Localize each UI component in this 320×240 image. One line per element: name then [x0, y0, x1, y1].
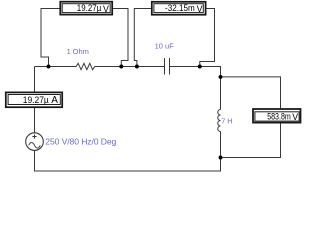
svg-text:250 V/80 Hz/0 Deg: 250 V/80 Hz/0 Deg [45, 137, 116, 147]
AC source V1 circle [26, 133, 44, 151]
wire: main top horizontal left segment [35, 66, 77, 68]
AC source plus sign [32, 134, 36, 138]
svg-text:7 H: 7 H [221, 117, 232, 126]
wire: capacitor right to top-right corner, down to junction [170, 67, 221, 77]
AC source sine wave [29, 143, 41, 149]
svg-text:V: V [103, 4, 109, 15]
voltmeter M1 reading text [77, 3, 110, 15]
label L1 value: 7 H [221, 117, 232, 126]
voltmeter M1 box (top-left) [60, 2, 112, 15]
svg-text:V: V [292, 112, 298, 123]
svg-text:V: V [197, 4, 203, 15]
svg-text:19.27µ: 19.27µ [77, 3, 102, 13]
node: junction dot at M1 left probe [47, 65, 51, 69]
ammeter M3 box [6, 92, 62, 107]
wire: junction down to inductor top [220, 77, 222, 110]
svg-text:A: A [51, 95, 58, 106]
label C1 value: 10 uF [155, 42, 175, 51]
inductor L1 (7 H) coil [218, 110, 221, 132]
wire: M2 left probe [134, 9, 151, 67]
node: junction dot bottom-right branch [219, 156, 223, 160]
label R1 value: 1 Ohm [67, 47, 89, 56]
wire: M2 right probe [200, 9, 215, 67]
svg-text:1 Ohm: 1 Ohm [67, 47, 89, 56]
capacitor C1 (10 uF) plates [165, 58, 170, 75]
voltmeter M4 box (right) [253, 109, 301, 123]
voltmeter M2 box (top-right) [152, 2, 206, 15]
wire: M1 left probe [41, 9, 60, 67]
wire: ammeter top lead up to main wire corner [34, 67, 36, 93]
wire: bottom junction right to voltmeter bottom lead [221, 123, 281, 157]
label source value: 250 V/80 Hz/0 Deg [45, 137, 116, 147]
node: junction dot at M2 left probe [135, 65, 139, 69]
svg-text:-32.15m: -32.15m [165, 3, 195, 13]
svg-text:583.8m: 583.8m [267, 112, 291, 122]
ammeter M3 reading text [23, 95, 58, 106]
wire: junction to right voltmeter top lead [221, 77, 281, 109]
wire: M1 right probe [113, 9, 128, 67]
voltmeter M4 reading text [267, 112, 299, 124]
svg-text:10 uF: 10 uF [155, 42, 175, 51]
node: junction dot top-right branch [219, 75, 223, 79]
wire: between resistor and capacitor [95, 66, 165, 68]
wire: source top lead up to ammeter [34, 108, 36, 133]
node: junction dot at M2 right probe [198, 65, 202, 69]
wire: inductor bottom to bottom junction [220, 132, 222, 158]
resistor R1 (1 Ohm) [76, 63, 95, 69]
voltmeter M2 reading text [165, 3, 203, 15]
node: junction dot at M1 right probe [119, 65, 123, 69]
svg-text:19.27µ: 19.27µ [23, 95, 49, 105]
wire: bottom junction down and left to source bottom [35, 151, 221, 171]
